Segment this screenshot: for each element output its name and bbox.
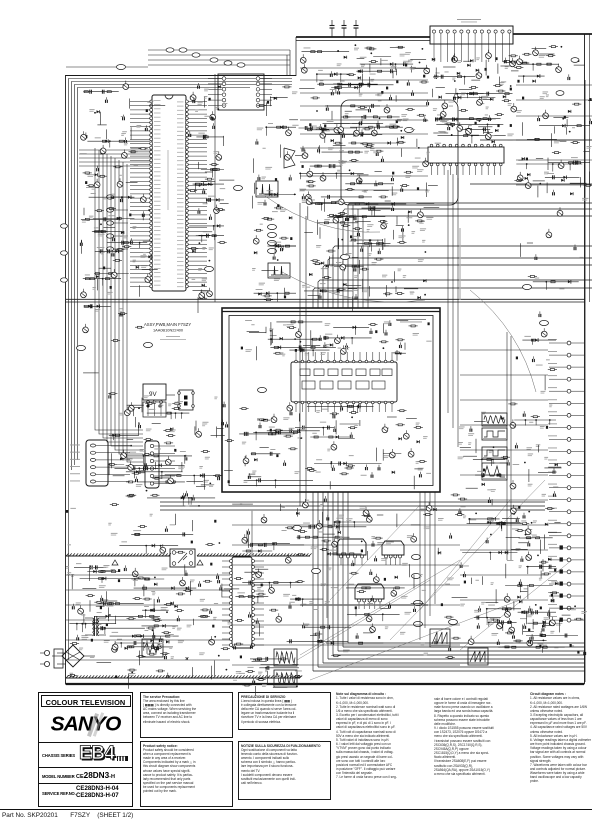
connector AC input plug bbox=[44, 650, 49, 655]
wire vertical at x296 to frame bbox=[295, 37, 297, 76]
node bubble N2 bbox=[268, 224, 277, 229]
mid-left 9V area component cluster bbox=[115, 467, 159, 469]
wire rows bottom-center bbox=[232, 524, 460, 526]
waveform W3 scope bbox=[482, 413, 507, 426]
node bubble N6 bbox=[293, 525, 302, 530]
text box product safety bbox=[140, 741, 233, 807]
node bubble N14 bbox=[205, 266, 214, 271]
node bubble N20 bbox=[341, 254, 350, 259]
wire vertical feeds to waveform column bbox=[447, 170, 449, 413]
waveform W2 scope bbox=[268, 263, 290, 278]
text column note sul diagramma A bbox=[336, 692, 430, 779]
wire nested bus along left and top frame bbox=[69, 79, 293, 661]
node bubble N10 bbox=[449, 619, 458, 624]
shield fold symbol bbox=[284, 148, 295, 168]
wire verticals below sub-board bbox=[419, 492, 421, 640]
warning triangle mark 2 bbox=[197, 560, 203, 565]
waveform W5 scope bbox=[482, 447, 507, 459]
IC202 sub IC dual pin columns bbox=[218, 74, 264, 110]
posistor R601 in box bbox=[142, 639, 163, 657]
node bubble N8 bbox=[414, 600, 423, 605]
IC501 horizontal IC top bbox=[430, 26, 513, 44]
wire nested bus staircase right-to-bottom bbox=[348, 203, 592, 308]
waveform W6 scope bbox=[482, 463, 507, 480]
right sparse component cluster bbox=[533, 281, 579, 283]
center-top dense component cluster bbox=[321, 196, 372, 198]
SANYO logo bbox=[39, 713, 132, 736]
ferrite bead row L201-L206 with wires bbox=[148, 49, 290, 51]
waveform W1 scope bbox=[256, 181, 278, 197]
node bubble N7 bbox=[312, 568, 321, 573]
wire top heavy bus line left of IC501 bbox=[296, 36, 430, 38]
wire top secondary line bbox=[296, 40, 430, 42]
right mid column component cluster bbox=[505, 585, 553, 587]
right-of-IC201 component cluster bbox=[206, 199, 224, 201]
node bubble N3 bbox=[268, 232, 277, 237]
below IC501 component cluster bbox=[435, 118, 492, 120]
svg-text:9V: 9V bbox=[149, 391, 157, 398]
service ref bbox=[39, 784, 132, 802]
op-amp/jungle IC IC201 (main signal processor) bbox=[152, 95, 186, 291]
connector oval pins left column bbox=[107, 195, 114, 199]
waveform W8 scope bbox=[274, 670, 297, 687]
node bubble N18 bbox=[523, 284, 532, 289]
text box precauzione bbox=[238, 692, 331, 730]
IC502 horizontal IC mid-right bbox=[428, 147, 504, 163]
wire sub-board outer box (CRT PCB) bbox=[222, 308, 440, 492]
bottom center lower-left component cluster bbox=[250, 658, 278, 660]
regulator blocks Q651 Q652 Q653 bbox=[337, 539, 366, 555]
right lower mid component cluster bbox=[467, 523, 521, 525]
wire rows top-right bbox=[516, 84, 592, 86]
capacitor bank box under 9V reg bbox=[143, 402, 166, 417]
left low sparse component cluster bbox=[119, 545, 178, 547]
bridge rectifier D601 bbox=[62, 645, 84, 667]
wire gray power bus traces bbox=[300, 604, 428, 606]
svg-text:1AA0B10N22400: 1AA0B10N22400 bbox=[153, 328, 184, 333]
chassis series bbox=[39, 743, 132, 767]
node bubble N1 bbox=[77, 345, 86, 350]
regulator D751 sub block bbox=[179, 390, 193, 410]
power area component cluster bbox=[95, 615, 160, 617]
wire vertical bus x215 bbox=[214, 74, 216, 302]
wire rows right-mid bbox=[460, 349, 548, 351]
wire right inner vertical bus bbox=[589, 34, 591, 302]
part number footer text bbox=[2, 812, 133, 819]
node bubble N11 bbox=[540, 320, 549, 325]
text column circuit diagram notes bbox=[530, 692, 592, 784]
waveform W9 scope bbox=[430, 629, 450, 647]
capacitor trio C501-C503 on top bus bbox=[331, 28, 333, 37]
node bubble N13 bbox=[144, 342, 153, 347]
wire hot-cold isolation hatched line lower bbox=[66, 677, 300, 679]
node label ASSY PCB bbox=[396, 319, 426, 320]
text box service precaution bbox=[140, 692, 233, 738]
wire main schematic border frame bbox=[66, 76, 585, 685]
waveform W7 scope bbox=[274, 649, 297, 666]
wire hot-cold isolation hatched line upper bbox=[66, 555, 170, 557]
model number bbox=[39, 768, 132, 783]
wire frame bottom thick bbox=[66, 683, 584, 685]
left sparse mid component cluster bbox=[84, 305, 111, 307]
node bubble N16 bbox=[412, 554, 421, 559]
bottom right dense component cluster bbox=[526, 635, 578, 637]
wire rows center-top bbox=[300, 67, 428, 69]
text box notizie bbox=[238, 741, 331, 800]
wire curved pointers upper bbox=[265, 196, 380, 232]
waveform W10 scope bbox=[468, 648, 488, 665]
wire sub-board inner box bbox=[229, 316, 433, 486]
legend box colour television bbox=[38, 692, 133, 807]
text column note sul diagramma B bbox=[434, 697, 526, 776]
wire verticals into sub-board box bbox=[352, 205, 354, 308]
node bubble N12 bbox=[258, 387, 267, 392]
node bubble N19 bbox=[405, 127, 414, 132]
top-right component cluster bbox=[548, 162, 590, 164]
wire waveform pointer diagonals bbox=[300, 560, 460, 655]
part number footer rule bbox=[0, 809, 592, 810]
left-of-IC201 component cluster bbox=[81, 218, 118, 220]
bottom center component cluster bbox=[252, 543, 290, 545]
connector CN851 CRT socket column bbox=[584, 80, 586, 682]
inside box lower component cluster bbox=[253, 431, 300, 433]
wire left vertical bus bundle bbox=[95, 148, 143, 430]
wire top heavy bus line right of IC501 bbox=[513, 33, 592, 35]
connector P902 block bbox=[145, 441, 159, 488]
transformer T601 power bbox=[94, 616, 96, 636]
col x252-296 component cluster bbox=[254, 292, 296, 294]
node bubble N15 bbox=[234, 185, 243, 190]
photocoupler PC601 bbox=[170, 549, 195, 567]
wire long horizontal double bus y300 bbox=[66, 298, 585, 300]
node bubble N4 bbox=[268, 240, 277, 245]
node bubble N5 bbox=[268, 248, 277, 253]
node label above IC501 bbox=[457, 19, 481, 20]
node bubble N9 bbox=[414, 621, 423, 626]
wire rounded enclosure around tuner section bbox=[341, 100, 458, 205]
waveform W4 scope bbox=[482, 428, 507, 440]
wire rows power bbox=[66, 574, 230, 576]
connector P901 remote block bbox=[86, 440, 108, 486]
node bubble N17 bbox=[412, 573, 421, 578]
warning triangle mark 1 bbox=[112, 560, 118, 565]
right waveform area component cluster bbox=[475, 474, 505, 476]
IC1 microprocessor inside sub-board bbox=[291, 362, 397, 402]
node bubble right top bbox=[571, 58, 579, 63]
IC601 power regulator vertical bbox=[232, 557, 252, 648]
inside box upper component cluster bbox=[276, 321, 322, 323]
wire sub-board top heavy edge bbox=[222, 311, 440, 313]
wire bottom horizontal bus group bbox=[160, 501, 545, 503]
svg-text:ASSY,PWB,MAIN F7SZY: ASSY,PWB,MAIN F7SZY bbox=[144, 322, 191, 327]
voltage regulator IC751 9V box bbox=[143, 384, 166, 400]
